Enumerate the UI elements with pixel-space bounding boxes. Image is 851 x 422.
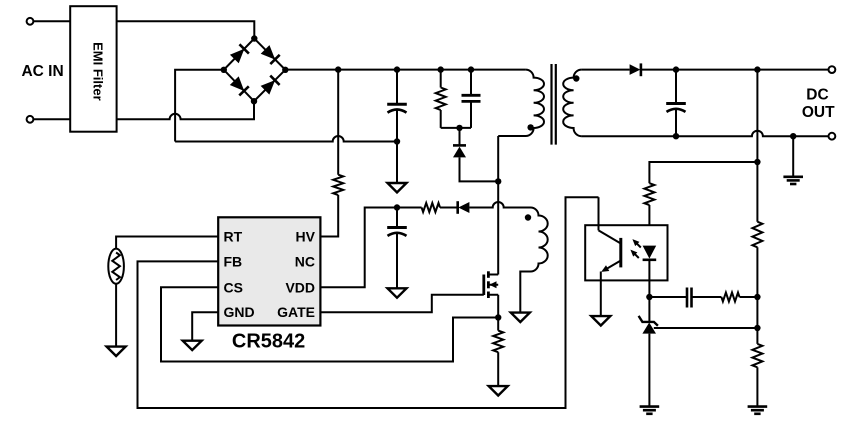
node output cap bottom [673, 133, 679, 139]
wire bus to snubber cap [470, 70, 472, 96]
diode bridge D1 (upper-left) [230, 44, 249, 63]
wire VDD cap stem [396, 208, 398, 228]
resistor HV startup [333, 175, 343, 195]
resistor current sense [493, 331, 503, 353]
diode output rectifier [630, 63, 641, 76]
wire secondary top to output diode [582, 69, 630, 71]
capacitor compensation [687, 288, 692, 308]
svg-text:CR5842: CR5842 [232, 331, 305, 353]
wire comp resistor to divider [740, 296, 758, 298]
wire VDD pin to node [320, 208, 397, 288]
EMI filter block [70, 6, 116, 132]
resistor divider lower [752, 344, 762, 367]
node aux phase dot [525, 214, 531, 220]
wire bus to HV resistor [337, 70, 339, 175]
svg-text:GATE: GATE [277, 304, 315, 320]
wire HV resistor to HV pin [320, 195, 338, 237]
resistor opto feed [644, 183, 654, 205]
wire FB to opto collector [138, 197, 599, 408]
svg-text:NC: NC [295, 253, 315, 269]
optocoupler box [585, 225, 667, 280]
transformer aux winding [520, 208, 547, 313]
ground divider (earth) [748, 407, 768, 414]
ground IC GND pin [183, 341, 202, 350]
capacitor bulk (polarized) [387, 104, 407, 112]
ground sense resistor [489, 386, 508, 395]
node bridge bottom [251, 98, 257, 104]
terminal DC-OUT top [829, 66, 836, 73]
ground secondary output (earth) [783, 177, 803, 184]
wire bulk cap to DC- rail [396, 111, 398, 142]
node source / CS [495, 314, 501, 320]
wire opto emitter [600, 272, 602, 316]
wire GND pin [192, 312, 218, 340]
wire snubber join [441, 127, 471, 129]
ground VDD cap [388, 288, 407, 297]
terminal AC-IN bottom [27, 116, 34, 123]
capacitor output (polarized) [666, 104, 686, 112]
wire GATE to gate [320, 295, 483, 312]
wire opto feed resistor to LED [648, 205, 650, 246]
node bridge left [221, 67, 227, 73]
wire snubber resistor down [440, 110, 442, 128]
ground primary (main) [388, 183, 407, 192]
wire TL431 ref [654, 327, 758, 329]
node DC- rail / bulk cap [394, 138, 400, 144]
resistor divider upper [752, 222, 762, 248]
wire DC- rail to ground [396, 142, 398, 184]
svg-text:EMI Filter: EMI Filter [90, 42, 105, 101]
wire EMI top out to bridge top [117, 21, 255, 38]
capacitor snubber [462, 95, 481, 101]
wire AC top to EMI [33, 20, 70, 22]
svg-text:DC: DC [806, 87, 828, 104]
wire TL431 cathode stem [648, 297, 650, 322]
ground thermistor [107, 347, 126, 356]
wire clamp node to diode [459, 128, 461, 145]
wire MOSFET source [497, 295, 499, 318]
wire drain line [497, 136, 499, 275]
svg-text:OUT: OUT [802, 104, 835, 121]
wire bus to snubber resistor [440, 70, 442, 88]
node bus HV tap [335, 66, 341, 72]
wire DC- rail (hop over HV line) [175, 136, 397, 142]
ground aux winding [511, 313, 530, 322]
wire bus to bulk cap [396, 70, 398, 105]
wire RT pin to thermistor [116, 237, 218, 249]
wire opto feed [649, 162, 757, 183]
capacitor VDD (polarized) [387, 228, 407, 236]
wire bridge left to DC- rail [175, 70, 224, 142]
wire secondary ground stem [792, 136, 794, 176]
node snubber clamp [456, 125, 462, 131]
wire bridge diamond [224, 39, 285, 102]
svg-text:RT: RT [224, 229, 243, 245]
wire divider middle [756, 247, 758, 344]
wire top bus [285, 69, 525, 71]
wire source to sense resistor [497, 318, 499, 331]
wire clamp diode to drain [460, 157, 499, 181]
transistor MOSFET Q1 [484, 271, 498, 298]
IC CR5842 body [218, 217, 320, 325]
node output cap top [673, 66, 679, 72]
wire VDD node to resistor [397, 207, 422, 209]
wire comp to cap [649, 296, 687, 298]
wire CS to sense node [161, 287, 498, 361]
diode bridge D3 (lower-left) [230, 76, 249, 95]
terminal DC-OUT bottom [829, 133, 836, 140]
wire TL431 anode to ground [648, 334, 650, 407]
wire divider upper [756, 70, 758, 222]
wire VDD diode to aux winding (hop over drain) [469, 202, 530, 208]
node VDD cap [394, 204, 400, 210]
wire EMI bottom out to bridge bottom (hop) [117, 101, 254, 119]
wire output diode to DC OUT+ [641, 69, 829, 71]
wire VDD cap to ground [396, 234, 398, 288]
node bus snubber R [438, 66, 444, 72]
svg-text:GND: GND [224, 304, 255, 320]
diode clamp (cathode up) [453, 145, 466, 157]
diode bridge D4 (lower-right) [261, 76, 280, 95]
wire thermistor to ground [115, 284, 117, 347]
node drain / clamp [495, 178, 501, 184]
wire output cap bottom [675, 110, 677, 136]
wire output cap top [675, 70, 677, 104]
optocoupler light arrows [630, 239, 640, 258]
wire comp cap to resistor [692, 296, 722, 298]
node comp RC [754, 294, 760, 300]
node ref tap [754, 325, 760, 331]
resistor VDD [422, 203, 440, 212]
transformer core [552, 64, 556, 145]
wire snubber cap down [470, 101, 472, 128]
wire sense resistor to ground [497, 352, 499, 386]
diode VDD rectifier (cathode left) [458, 201, 470, 214]
node opto feed tap [754, 159, 760, 165]
wire opto collector [598, 197, 600, 230]
transformer secondary winding [563, 70, 581, 137]
node TL431 cathode [646, 294, 652, 300]
optocoupler phototransistor [599, 230, 621, 272]
wire AC bottom to EMI [33, 118, 70, 120]
resistor compensation [721, 293, 739, 302]
node bus snubber C [468, 66, 474, 72]
resistor snubber [436, 88, 446, 111]
node divider top [754, 66, 760, 72]
svg-text:HV: HV [296, 229, 316, 245]
TL431 shunt regulator (zener) [639, 316, 658, 334]
diode bridge D2 (upper-right) [261, 45, 280, 64]
node bus bulk cap [394, 66, 400, 72]
transformer primary winding [498, 70, 544, 136]
wire divider to ground [756, 367, 758, 406]
wire LED cathode down [648, 260, 650, 297]
svg-text:CS: CS [224, 279, 243, 295]
node secondary phase dot [573, 75, 579, 81]
thermistor RT [108, 249, 124, 284]
optocoupler LED [643, 246, 657, 260]
wire VDD resistor to diode [440, 207, 458, 209]
svg-text:AC IN: AC IN [21, 63, 63, 80]
svg-text:VDD: VDD [285, 279, 315, 295]
node bridge top [251, 35, 257, 41]
node secondary ground tap [790, 133, 796, 139]
svg-text:FB: FB [224, 253, 243, 269]
terminal AC-IN top [27, 18, 34, 25]
ground opto emitter [591, 316, 610, 325]
wire DC- secondary rail (hop over divider) [582, 131, 829, 137]
node primary phase dot [527, 124, 533, 130]
node bridge right [282, 67, 288, 73]
ground TL431 (earth) [640, 407, 660, 414]
